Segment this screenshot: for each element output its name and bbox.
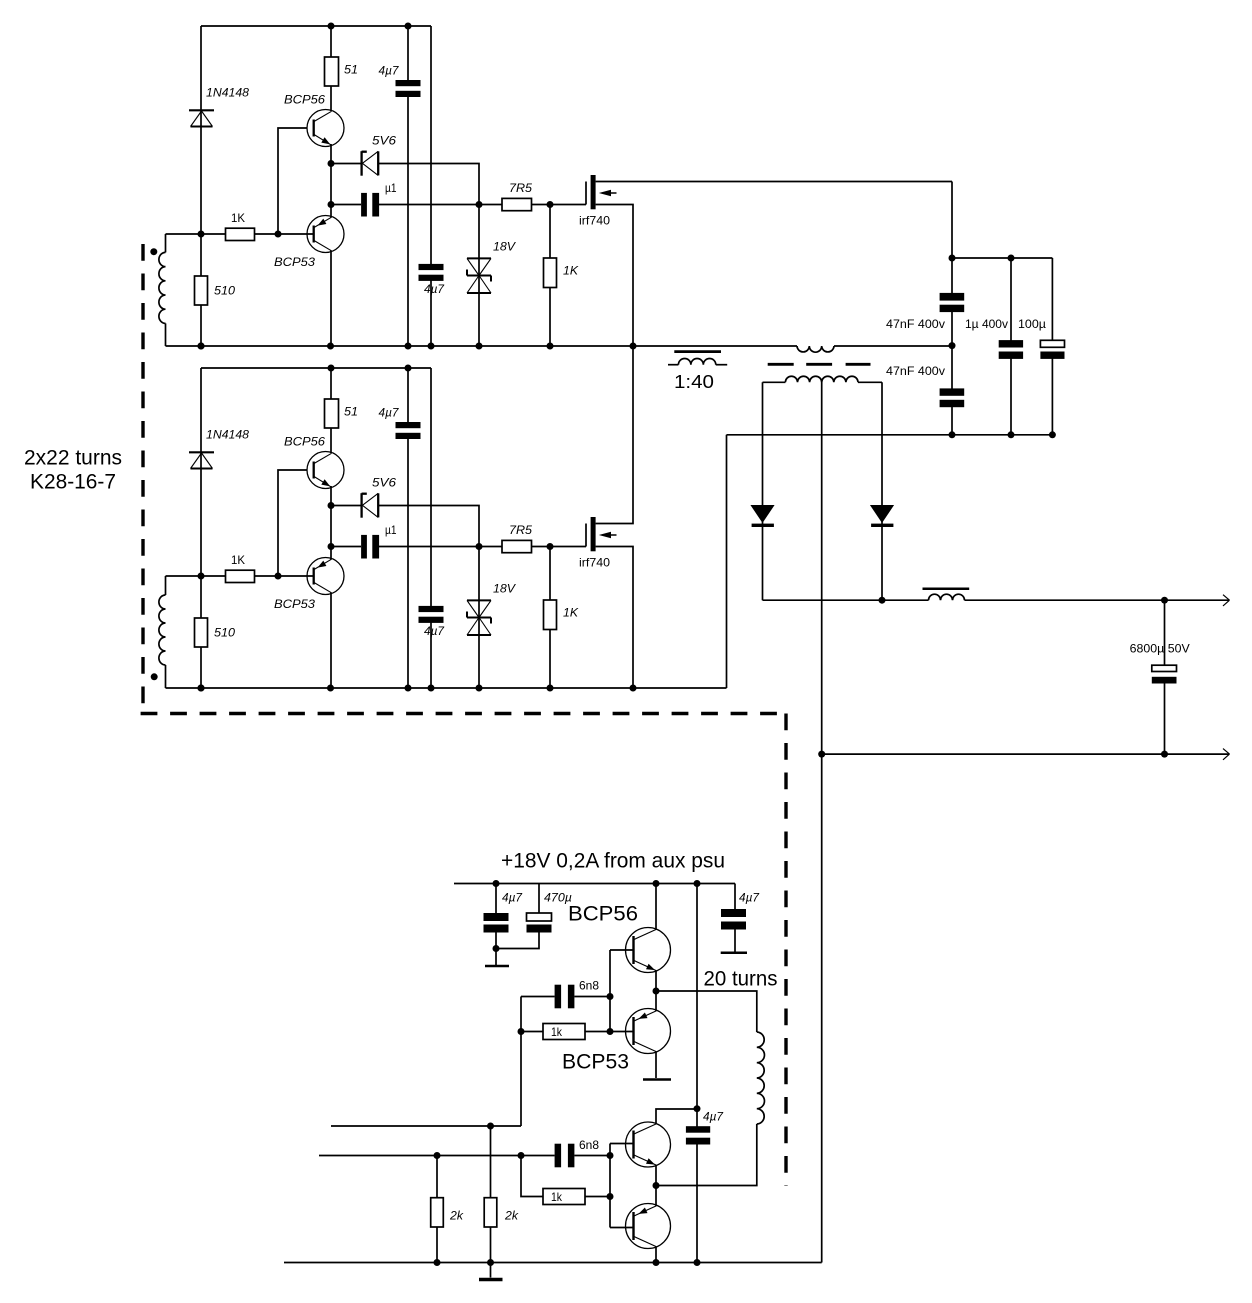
node output/6800u [1161, 597, 1168, 604]
resistor 1k upper [521, 1031, 543, 1033]
node base-row left (stage 1) [198, 231, 205, 238]
svg-text:irf740: irf740 [579, 213, 610, 227]
zener diode 5V6 (stage 2) [331, 505, 362, 507]
transistor BCP56 (stage 2) [307, 452, 344, 489]
winding 22 turns (stage 1) [165, 234, 167, 252]
wire BCP53 collector (stage 1) [330, 251, 332, 347]
node diode-right/output [879, 597, 886, 604]
node bottom-rail x201 (stage 1) [198, 343, 205, 350]
node +bus left [949, 255, 956, 262]
node center-tap/bottom-output [818, 751, 825, 758]
wire top rail (stage 2) [201, 367, 431, 369]
rectifier diode right [870, 505, 894, 523]
node input1/2k [487, 1123, 494, 1130]
current transformer 1:40 [674, 350, 721, 353]
wire drive input 2 [319, 1155, 555, 1157]
wire BCP56 base vertical (stage 1) [278, 128, 307, 234]
node bottom-rail x431 (stage 2) [428, 685, 435, 692]
node bottom-rail x330 (stage 2) [327, 685, 334, 692]
rectifier diode left [750, 505, 774, 523]
diode 1N4148 (stage 1) [189, 109, 214, 111]
node -bus x952 [949, 431, 956, 438]
transformer core [768, 363, 794, 366]
node bottom-rail x201 (stage 2) [198, 685, 205, 692]
node gate-row/zener (stage 1) [476, 201, 483, 208]
svg-text:47nF 400v: 47nF 400v [886, 364, 945, 378]
wire drain (stage 1) [596, 181, 952, 183]
node base-row left (stage 2) [198, 573, 205, 580]
resistor 1K gate (stage 1) [549, 205, 551, 347]
zener 18V bidirectional (stage 2) [478, 547, 480, 689]
wire left vertical (stage 1) [200, 26, 202, 234]
wire center tap to ground rail [821, 379, 823, 1263]
capacitor 4u7 lower (stage 2) [430, 368, 432, 608]
svg-text:1K: 1K [231, 211, 245, 225]
winding 22 turns (stage 2) [165, 576, 167, 595]
node top-rail/4u7 junction (stage 2) [405, 365, 412, 372]
wire aux ground rail [284, 1262, 822, 1264]
svg-text:510: 510 [214, 283, 235, 297]
wire -bus [727, 434, 1053, 436]
wire BCP53 collector (stage 2) [330, 593, 332, 689]
wire left vertical (stage 2) [200, 368, 202, 576]
svg-text:5V6: 5V6 [372, 133, 396, 147]
svg-text:1k: 1k [551, 1025, 563, 1039]
node gate (stage 1) [547, 201, 554, 208]
svg-text:µ1: µ1 [385, 523, 397, 537]
node base1/6n8 [607, 993, 614, 1000]
resistor 2k right [490, 1126, 492, 1263]
capacitor 4u7 aux decoupling [696, 1109, 698, 1128]
dashed transformer boundary left [141, 244, 144, 705]
resistor 1K base (stage 2) [226, 570, 255, 582]
capacitor 47nF 400v lower [951, 346, 953, 390]
node aux rail x697 [694, 880, 701, 887]
wire collector / resistor 51 (stage 1) [330, 26, 332, 111]
capacitor 470u electrolytic [538, 884, 540, 916]
svg-text:4µ7: 4µ7 [424, 624, 445, 638]
transformer secondary winding [785, 376, 858, 382]
ground BCP53 aux upper [643, 1078, 671, 1081]
resistor 2k left [436, 1156, 438, 1263]
svg-text:18V: 18V [493, 581, 516, 595]
node primary right [949, 342, 956, 349]
node gnd-rail x697 [694, 1259, 701, 1266]
node -bus x1011 [1008, 431, 1015, 438]
wire output top [763, 599, 929, 601]
svg-text:2k: 2k [504, 1208, 519, 1222]
wire output top right [965, 599, 1230, 601]
capacitor 6n8 upper [521, 996, 555, 998]
node base2/1k [607, 1193, 614, 1200]
node bottom-rail x633 (stage 1) [630, 343, 637, 350]
wire base row (stage 1) [166, 233, 314, 235]
wire aux pair1 base vertical [609, 950, 611, 1032]
svg-text:18V: 18V [493, 239, 516, 253]
node emitter/zener junction (stage 2) [328, 502, 335, 509]
svg-text:6800µ 50V: 6800µ 50V [1130, 641, 1190, 655]
node bottom-rail x408 (stage 2) [405, 685, 412, 692]
wire aux pair2 base vertical [609, 1144, 611, 1228]
node -bus x1052 [1049, 431, 1056, 438]
node input2/1k [518, 1152, 525, 1159]
node base1/1k [607, 1028, 614, 1035]
node top-rail/4u7 junction (stage 1) [405, 23, 412, 30]
wire collector / resistor 51 (stage 2) [330, 368, 332, 453]
wire drive input 1 [331, 1125, 521, 1127]
node top-rail/51 junction (stage 2) [328, 365, 335, 372]
zener 18V bidirectional (stage 1) [478, 205, 480, 347]
node emitter/cap junction (stage 2) [328, 543, 335, 550]
svg-text:BCP53: BCP53 [274, 255, 315, 269]
node gate (stage 2) [547, 543, 554, 550]
wire totem1 output to winding [656, 991, 757, 1032]
transistor BCP53 aux lower [626, 1204, 671, 1249]
wire BCP56 base vertical (stage 2) [278, 470, 307, 576]
node top-rail/51 junction (stage 1) [328, 23, 335, 30]
node bottom-rail x550 (stage 1) [547, 343, 554, 350]
svg-text:1N4148: 1N4148 [206, 85, 249, 99]
node bottom-rail x633 (stage 2) [630, 685, 637, 692]
svg-text:4µ7: 4µ7 [424, 282, 445, 296]
svg-text:47nF 400v: 47nF 400v [886, 317, 945, 331]
capacitor 4u7 aux right [734, 884, 736, 912]
wire pair1 input vertical [520, 997, 522, 1127]
svg-text:1K: 1K [563, 263, 579, 277]
svg-text:1k: 1k [551, 1190, 563, 1204]
resistor 7R5 (stage 1) [479, 204, 502, 206]
svg-text:1:40: 1:40 [674, 372, 714, 392]
svg-text:BCP53: BCP53 [274, 597, 315, 611]
node bottom-rail x330 (stage 1) [327, 343, 334, 350]
arrow output plus [1223, 595, 1230, 601]
wire aux +18V rail [454, 883, 735, 885]
wire +bus [952, 257, 1052, 259]
phasing dot (stage 2) [151, 673, 158, 680]
svg-text:4µ7: 4µ7 [379, 405, 400, 419]
svg-text:6n8: 6n8 [579, 1138, 599, 1152]
svg-text:4µ7: 4µ7 [502, 890, 523, 904]
node +bus mid [1008, 255, 1015, 262]
capacitor u1 (stage 2) [331, 546, 361, 548]
node aux rail c1 [493, 880, 500, 887]
svg-text:5V6: 5V6 [372, 475, 396, 489]
svg-text:100µ: 100µ [1018, 317, 1046, 331]
node output-bottom/6800u [1161, 751, 1168, 758]
wire zener to gate node (stage 2) [378, 506, 479, 547]
wire aux +18V vertical x697 [696, 884, 698, 1111]
svg-text:51: 51 [344, 404, 358, 418]
svg-text:BCP56: BCP56 [568, 903, 638, 926]
node emitter/cap junction (stage 1) [328, 201, 335, 208]
wire source (stage 2) [596, 547, 633, 689]
zener diode 5V6 (stage 1) [331, 163, 362, 165]
resistor 1K gate (stage 2) [549, 547, 551, 689]
capacitor 4u7 upper (stage 1) [407, 26, 409, 82]
node gnd-rail 2k-left [434, 1259, 441, 1266]
wire source (stage 1) [596, 205, 633, 347]
node rail left (stage 2) [198, 685, 205, 692]
transistor BCP56 (stage 1) [307, 110, 344, 147]
resistor 510 (stage 2) [195, 618, 208, 647]
phasing dot (stage 1) [150, 248, 157, 255]
dashed transformer boundary bottom [141, 712, 788, 715]
svg-text:510: 510 [214, 625, 235, 639]
svg-text:BCP56: BCP56 [284, 92, 325, 106]
wire emitter junction vertical (stage 2) [330, 486, 332, 560]
capacitor 47nF 400v upper [951, 258, 953, 295]
svg-text:1µ 400v: 1µ 400v [965, 317, 1008, 331]
wire emitter junction vertical (stage 1) [330, 144, 332, 218]
svg-text:1N4148: 1N4148 [206, 427, 249, 441]
capacitor 6n8 lower [555, 1144, 562, 1168]
svg-text:4µ7: 4µ7 [379, 63, 400, 77]
transistor BCP53 aux upper [626, 1009, 671, 1054]
node aux rail q1 [653, 880, 660, 887]
ground aux input [495, 949, 497, 966]
svg-text:51: 51 [344, 62, 358, 76]
wire top rail (stage 1) [201, 25, 431, 27]
node gnd-rail 2k-right [487, 1259, 494, 1266]
node aux c1/c2 ground [493, 945, 500, 952]
node collector2/4u7 [694, 1105, 701, 1112]
resistor 51 (stage 2) [325, 399, 339, 428]
dashed transformer boundary right [784, 714, 787, 1187]
capacitor 1u 400v [1010, 258, 1012, 341]
svg-text:BCP53: BCP53 [562, 1051, 629, 1074]
resistor 510 (stage 1) [195, 276, 208, 305]
capacitor 4u7 upper (stage 2) [407, 368, 409, 424]
wire return riser [726, 435, 728, 688]
capacitor 6800u 50V electrolytic [1164, 600, 1166, 666]
capacitor 4u7 lower (stage 1) [430, 26, 432, 266]
mosfet irf740 (stage 1) [585, 182, 587, 205]
svg-text:2k: 2k [449, 1208, 464, 1222]
transistor BCP56 aux upper [626, 928, 671, 973]
wire drain bus vertical [951, 182, 953, 259]
resistor 7R5 (stage 2) [479, 546, 502, 548]
wire base row (stage 2) [166, 575, 314, 577]
resistor 51 (stage 1) [325, 57, 339, 86]
node base-row/BCP56-base junction (stage 2) [275, 573, 282, 580]
node aux totem1 output [653, 988, 660, 995]
svg-text:6n8: 6n8 [579, 978, 599, 992]
wire drain (stage 2) [596, 346, 633, 524]
wire bottom rail (stage 2) [166, 687, 727, 689]
transistor BCP53 (stage 2) [307, 558, 344, 595]
node bottom-rail x408 (stage 1) [405, 343, 412, 350]
svg-text:µ1: µ1 [385, 181, 397, 195]
svg-text:4µ7: 4µ7 [739, 890, 760, 904]
node input2/2k [434, 1152, 441, 1159]
node base-row/BCP56-base junction (stage 1) [275, 231, 282, 238]
svg-text:1K: 1K [563, 605, 579, 619]
svg-text:2x22 turns: 2x22 turns [24, 447, 122, 470]
svg-text:7R5: 7R5 [509, 181, 532, 195]
svg-text:BCP56: BCP56 [284, 434, 325, 448]
node gnd-rail totem [653, 1259, 660, 1266]
svg-text:1K: 1K [231, 553, 245, 567]
wire resistor-510 vertical (stage 1) [200, 234, 202, 346]
resistor 1k lower [521, 1156, 543, 1197]
node emitter/zener junction (stage 1) [328, 160, 335, 167]
node rail left (stage 1) [198, 343, 205, 350]
capacitor 100u electrolytic [1051, 258, 1053, 341]
wire output bottom [822, 753, 1230, 755]
svg-text:K28-16-7: K28-16-7 [30, 471, 116, 494]
node bottom-rail x550 (stage 2) [547, 685, 554, 692]
node base2/6n8 [607, 1152, 614, 1159]
transistor BCP56 aux lower [626, 1122, 671, 1167]
svg-text:20 turns: 20 turns [704, 968, 778, 991]
ground aux rail [490, 1263, 492, 1278]
wire bottom rail (stage 1) [166, 345, 798, 347]
node bottom-rail x431 (stage 1) [428, 343, 435, 350]
node bottom-rail x479 (stage 1) [476, 343, 483, 350]
ground stub 4u7 aux right [721, 952, 747, 955]
transformer primary winding [797, 346, 834, 352]
svg-text:irf740: irf740 [579, 555, 610, 569]
node gate-row/zener (stage 2) [476, 543, 483, 550]
diode 1N4148 (stage 2) [189, 451, 214, 453]
mosfet irf740 (stage 2) [585, 524, 587, 547]
transistor BCP53 (stage 1) [307, 216, 344, 253]
svg-text:7R5: 7R5 [509, 523, 532, 537]
resistor 1K base (stage 1) [226, 228, 255, 240]
node aux totem2 output [653, 1182, 660, 1189]
capacitor 4u7 aux input [495, 884, 497, 916]
capacitor u1 (stage 1) [331, 204, 361, 206]
arrow output minus [1223, 749, 1230, 755]
wire zener to gate node (stage 1) [378, 164, 479, 205]
wire secondary right vertical [881, 382, 883, 600]
node input1/1k [518, 1028, 525, 1035]
svg-text:+18V 0,2A from aux psu: +18V 0,2A from aux psu [501, 850, 725, 873]
wire resistor-510 vertical (stage 2) [200, 576, 202, 688]
wire secondary left vertical [762, 382, 764, 600]
winding 20 turns [757, 1032, 765, 1124]
svg-text:4µ7: 4µ7 [703, 1109, 724, 1123]
wire totem2 output to winding [656, 1124, 757, 1186]
node bottom-rail x479 (stage 2) [476, 685, 483, 692]
output inductor [929, 594, 965, 600]
